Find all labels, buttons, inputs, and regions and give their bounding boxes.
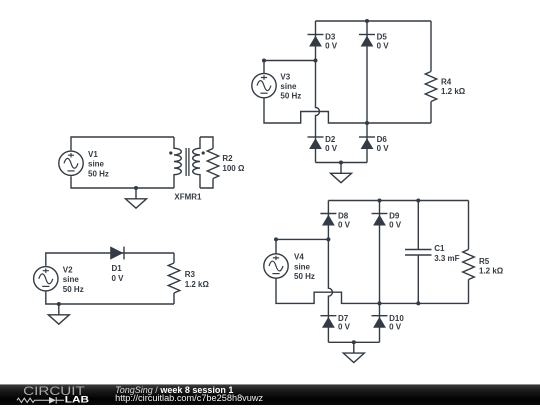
svg-text:sine: sine (88, 160, 105, 169)
svg-text:V2: V2 (63, 266, 73, 275)
svg-text:1.2 kΩ: 1.2 kΩ (441, 87, 466, 96)
svg-text:100 Ω: 100 Ω (222, 164, 245, 173)
svg-text:D2: D2 (325, 135, 336, 144)
svg-text:D8: D8 (338, 212, 349, 221)
svg-text:D1: D1 (112, 264, 123, 273)
svg-text:0 V: 0 V (338, 323, 351, 332)
svg-text:1.2 kΩ: 1.2 kΩ (479, 267, 504, 276)
svg-text:50 Hz: 50 Hz (63, 285, 84, 294)
svg-text:sine: sine (294, 262, 311, 271)
svg-text:http://circuitlab.com/c7be258h: http://circuitlab.com/c7be258h8vuwz (115, 393, 264, 403)
svg-text:0 V: 0 V (338, 221, 351, 230)
svg-text:V1: V1 (88, 150, 98, 159)
svg-text:LAB: LAB (65, 395, 90, 405)
svg-text:D5: D5 (377, 33, 388, 42)
svg-text:D3: D3 (325, 33, 336, 42)
svg-text:50 Hz: 50 Hz (294, 272, 315, 281)
svg-text:V3: V3 (280, 72, 290, 81)
svg-text:R4: R4 (441, 78, 452, 87)
svg-text:D7: D7 (338, 314, 349, 323)
svg-text:0 V: 0 V (389, 323, 402, 332)
svg-text:50 Hz: 50 Hz (88, 169, 109, 178)
svg-text:C1: C1 (434, 244, 445, 253)
svg-text:sine: sine (280, 82, 297, 91)
svg-text:0 V: 0 V (325, 144, 338, 153)
svg-text:R5: R5 (479, 257, 490, 266)
svg-text:3.3 mF: 3.3 mF (434, 254, 459, 263)
svg-text:XFMR1: XFMR1 (174, 192, 202, 201)
svg-text:D10: D10 (389, 314, 404, 323)
svg-text:sine: sine (63, 275, 80, 284)
svg-text:0 V: 0 V (389, 221, 402, 230)
svg-text:D6: D6 (377, 135, 388, 144)
svg-text:D9: D9 (389, 212, 400, 221)
svg-text:50 Hz: 50 Hz (280, 92, 301, 101)
svg-text:0 V: 0 V (112, 274, 125, 283)
svg-text:0 V: 0 V (325, 42, 338, 51)
svg-text:0 V: 0 V (377, 144, 390, 153)
svg-text:R3: R3 (185, 270, 196, 279)
svg-text:0 V: 0 V (377, 42, 390, 51)
svg-text:R2: R2 (222, 154, 233, 163)
svg-text:V4: V4 (294, 253, 304, 262)
svg-text:1.2 kΩ: 1.2 kΩ (185, 280, 210, 289)
